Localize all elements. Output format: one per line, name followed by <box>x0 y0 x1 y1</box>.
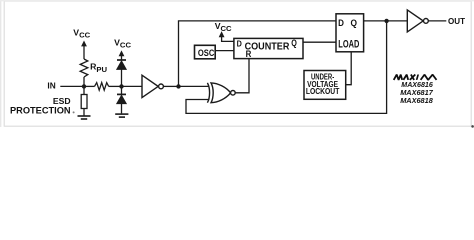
corner artifact dot <box>471 125 474 128</box>
wire node B to inverter U1 input <box>122 85 143 87</box>
wire node B to lower diode <box>121 86 123 95</box>
wire node C up and right to flip-flop D input <box>179 21 337 87</box>
svg-text:COUNTER: COUNTER <box>245 41 290 52</box>
ESD protection box <box>81 95 87 109</box>
svg-text:OUT: OUT <box>448 16 466 26</box>
wire XNOR output to counter R input <box>235 59 249 93</box>
power VCC arrow head (clamp) <box>119 50 125 56</box>
wire IN lead <box>60 85 84 87</box>
wire feedback XNOR lower input <box>186 21 387 114</box>
wire buffer to OUT <box>428 20 446 22</box>
resistor RPU (vertical) <box>80 59 88 77</box>
svg-text:LOAD: LOAD <box>338 38 359 50</box>
inverter U5 (output buffer) <box>407 10 428 32</box>
oscillator OSC box <box>195 45 216 59</box>
ground (ESD box) <box>78 116 91 119</box>
wire node A to series resistor <box>84 85 95 87</box>
power VCC (clamp) stem <box>121 56 123 60</box>
power VCC (counter D) stem <box>222 37 234 41</box>
svg-text:PROTECTION: PROTECTION <box>10 105 71 116</box>
svg-text:Q: Q <box>351 18 358 29</box>
node C junction <box>176 84 180 88</box>
node A junction <box>82 84 86 88</box>
wire resistor to node B <box>109 85 122 87</box>
under-voltage lockout box <box>304 71 346 100</box>
svg-text:R: R <box>246 49 252 59</box>
wire node C to XNOR top input <box>179 85 210 87</box>
wire counter Q to flip-flop LOAD <box>303 41 336 43</box>
node D junction (feedback tap) <box>384 19 388 23</box>
node B junction <box>119 84 123 88</box>
stray dot after PROTECTION <box>73 111 75 113</box>
diode D1 (clamp to VCC) <box>117 60 126 69</box>
wire ESD box to ground <box>83 109 85 116</box>
svg-text:IN: IN <box>47 81 55 91</box>
svg-text:LOCKOUT: LOCKOUT <box>306 86 340 96</box>
ground (lower clamp diode) <box>115 114 128 117</box>
svg-text:D: D <box>338 18 344 29</box>
logo MAXIM <box>394 75 437 80</box>
inverter U1 (input Schmitt buffer) <box>142 75 163 97</box>
power VCC arrow head (counter D) <box>219 31 225 37</box>
svg-text:MAX6818: MAX6818 <box>400 96 433 105</box>
svg-text:Q: Q <box>291 38 297 48</box>
wire upper diode to node B <box>121 69 123 86</box>
power VCC (pull-up) arrow <box>83 46 85 59</box>
wire UVLO to flip-flop bottom <box>346 52 351 85</box>
wire flip-flop Q to output buffer <box>364 20 408 22</box>
diode D2 (clamp to ground) <box>117 94 126 103</box>
wire node A down to ESD box <box>83 86 85 94</box>
wire lower diode to ground <box>121 104 123 114</box>
resistor R1 (series, horizontal) <box>95 83 109 91</box>
svg-text:OSC: OSC <box>198 48 215 58</box>
power VCC arrow head (pull-up) <box>81 41 87 47</box>
wire OSC to counter clock <box>215 50 234 52</box>
wire RPU to node A <box>83 77 85 86</box>
flip-flop U4 box <box>336 14 364 52</box>
counter U3 box <box>234 38 303 58</box>
svg-text:D: D <box>237 39 242 49</box>
wire inverter U1 output to node C <box>164 85 179 87</box>
gate XNOR U2 <box>207 83 235 103</box>
figure border frame <box>0 0 474 127</box>
